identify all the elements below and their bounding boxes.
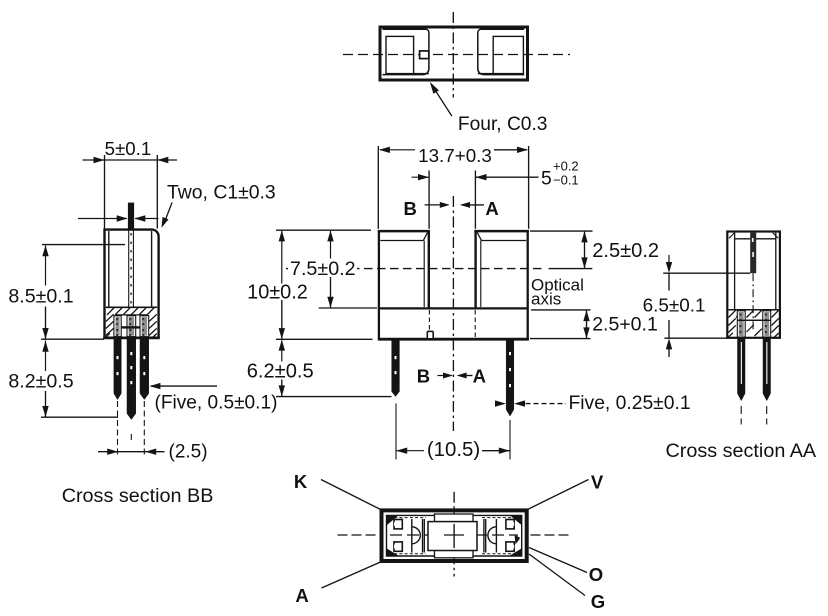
svg-text:(10.5): (10.5) (427, 439, 480, 461)
svg-text:2.5+0.1: 2.5+0.1 (592, 314, 658, 336)
svg-text:V: V (591, 471, 604, 492)
svg-text:6.2±0.5: 6.2±0.5 (247, 360, 314, 382)
svg-text:6.5±0.1: 6.5±0.1 (643, 296, 706, 317)
svg-text:A: A (473, 366, 486, 387)
svg-text:Cross section AA: Cross section AA (666, 440, 817, 462)
svg-text:−0.1: −0.1 (553, 172, 579, 187)
svg-text:(Five, 0.5±0.1): (Five, 0.5±0.1) (155, 393, 278, 414)
svg-text:Four, C0.3: Four, C0.3 (458, 114, 548, 135)
svg-text:5±0.1: 5±0.1 (105, 138, 152, 159)
svg-text:(2.5): (2.5) (169, 442, 208, 463)
svg-text:axis: axis (531, 289, 561, 308)
svg-text:G: G (591, 591, 605, 611)
svg-text:10±0.2: 10±0.2 (247, 281, 308, 303)
svg-text:Five, 0.25±0.1: Five, 0.25±0.1 (569, 393, 691, 414)
svg-text:O: O (589, 564, 603, 585)
svg-text:A: A (295, 585, 308, 606)
svg-text:5: 5 (541, 168, 552, 190)
svg-text:B: B (417, 366, 430, 387)
svg-text:+0.2: +0.2 (553, 158, 579, 173)
svg-text:B: B (404, 198, 417, 219)
svg-text:8.5±0.1: 8.5±0.1 (8, 286, 73, 308)
svg-text:K: K (294, 471, 308, 492)
svg-text:7.5±0.2: 7.5±0.2 (290, 258, 356, 280)
svg-text:Two, C1±0.3: Two, C1±0.3 (167, 181, 276, 203)
svg-text:Cross section BB: Cross section BB (62, 485, 214, 507)
svg-text:8.2±0.5: 8.2±0.5 (8, 370, 73, 392)
svg-text:2.5±0.2: 2.5±0.2 (592, 240, 659, 262)
svg-text:13.7+0.3: 13.7+0.3 (418, 145, 492, 166)
svg-text:A: A (485, 198, 498, 219)
